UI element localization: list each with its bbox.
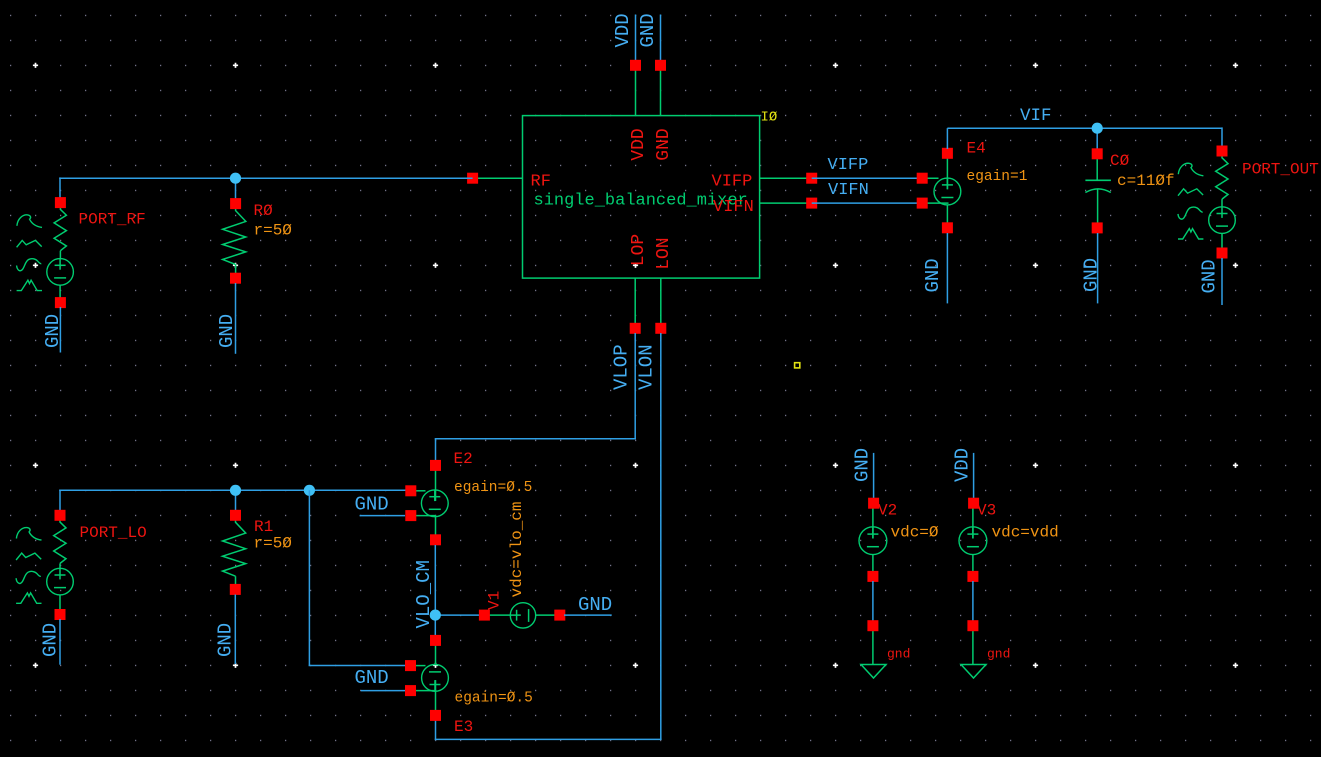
svg-text:vdc=vdd: vdc=vdd [992,524,1059,542]
vdc V1 circle [510,603,535,628]
svg-text:E2: E2 [454,450,473,468]
svg-text:GND: GND [42,314,64,348]
vcvs E4 circle [934,178,961,205]
R0 pin top [230,198,241,209]
V1 pin plus [479,610,490,621]
wire LO net horizontal [59,489,408,491]
vdc V2 circle [859,527,887,555]
R1 pin top [230,510,241,521]
C0 pin top [1092,148,1103,159]
V3 pin plus [968,498,979,509]
mixer pin VDD [630,60,641,71]
PORT_OUT resistor zigzag [1216,156,1228,200]
wire R0 gnd stub [235,283,237,354]
vdc V3 leads [972,503,974,538]
ground symbol (V2) [872,629,874,665]
V3 pin minus [967,571,978,582]
svg-text:c=11Øf: c=11Øf [1117,172,1175,190]
capacitor C0 top plate [1085,179,1111,181]
wire LO to R1 [235,490,237,511]
wire E3 gnd stub [361,690,405,692]
wire VLO_CM to V1 [435,614,480,616]
op-amp U-mixer I0 symbol box [523,116,760,279]
svg-text:GND: GND [637,13,659,47]
mixer RF lead [473,177,523,179]
wire RF net horizontal [59,177,472,179]
svg-text:gnd: gnd [887,647,910,662]
wire RF to PORT_RF [59,177,61,198]
wire C0 gnd stub [1097,233,1099,303]
vcvs E3 circle [422,665,449,692]
svg-text:gnd: gnd [987,647,1010,662]
mixer pin LOP [630,323,641,334]
PORT_RF pin top [55,197,66,208]
svg-text:GND: GND [654,128,674,160]
PORT_RF resistor zigzag [54,207,66,251]
gnd pin (V3) [967,620,978,631]
svg-text:GND: GND [216,314,238,348]
svg-text:RF: RF [531,173,551,192]
svg-text:GND: GND [355,494,389,516]
vcvs E3 control leads [411,665,426,667]
C0 pin bottom [1092,222,1103,233]
wire RF to R0 [235,178,237,199]
svg-text:E4: E4 [967,140,986,158]
svg-text:GND: GND [852,448,874,482]
svg-text:V2: V2 [878,502,897,520]
svg-text:VLON: VLON [636,344,658,390]
V1 pin minus [554,610,565,621]
vcvs E2 output leads [435,465,437,501]
vdc V3 circle [959,527,987,555]
PORT_LO pin bottom [55,609,66,620]
E2 pin ctrl+ [405,485,416,496]
mixer pin VIFN [806,198,817,209]
port source PORT_RF waveform glyphs [17,215,42,291]
mixer VIFP lead [760,177,812,179]
svg-text:VIFP: VIFP [712,173,753,192]
svg-text:PORT_OUT: PORT_OUT [1242,161,1319,179]
E2 pin out- [430,534,441,545]
PORT_RF pin bottom [55,297,66,308]
vcvs E4 output leads [946,153,948,189]
mixer LON lead [660,278,662,324]
svg-text:PORT_RF: PORT_RF [79,211,146,229]
svg-text:VDD: VDD [612,13,634,47]
svg-text:VIFP: VIFP [828,156,869,175]
E2 pin out+ [430,460,441,471]
wire V1 gnd stub [564,614,612,616]
svg-text:IØ: IØ [761,109,778,125]
svg-text:egain=Ø.5: egain=Ø.5 [454,480,532,496]
E3 pin out- [430,635,441,646]
E4 pin ctrl+ [917,173,928,184]
svg-text:r=5Ø: r=5Ø [254,222,293,240]
svg-text:RØ: RØ [254,202,274,220]
svg-text:VDD: VDD [952,448,974,482]
port source PORT_OUT waveform glyphs [1178,163,1203,239]
svg-text:VDD: VDD [629,128,649,160]
E3 pin ctrl- [405,685,416,696]
vdc V1 leads [484,614,520,616]
V2 pin minus [867,571,878,582]
svg-text:E3: E3 [454,718,473,736]
wire VIF to C0 [1096,128,1098,149]
svg-text:GND: GND [1081,258,1103,292]
svg-text:GND: GND [578,594,612,616]
svg-text:GND: GND [355,667,389,689]
mixer pin VIFP [806,173,817,184]
wire LO branch down to E3 [308,490,310,665]
capacitor C0 bottom lead [1097,189,1099,223]
capacitor C0 bottom plate (arc) [1085,189,1110,193]
E4 pin out+ [942,148,953,159]
node LO junction 2 [304,485,315,496]
vdc V2 leads [872,503,874,538]
resistor R1 body [223,515,246,576]
E4 pin out- [942,222,953,233]
PORT_OUT source circle [1209,207,1236,234]
V2 pin plus [868,498,879,509]
port source PORT_LO waveform glyphs [16,528,41,604]
svg-text:egain=1: egain=1 [967,169,1028,185]
wire VDD stub [635,15,637,62]
wire E4 gnd stub [946,233,948,303]
wire VIF vertical from E4 [946,128,948,149]
vcvs E4 control leads [922,177,938,179]
E3 pin out+ [430,710,441,721]
svg-text:GND: GND [1199,259,1221,293]
wire VLON net [660,333,662,739]
wire VIF horizontal [947,127,1222,129]
svg-text:VIFN: VIFN [713,198,754,217]
svg-text:r=5Ø: r=5Ø [254,535,293,553]
node VIF junction [1092,123,1103,134]
svg-text:vdc=Ø: vdc=Ø [891,524,939,542]
E3 pin ctrl+ [405,660,416,671]
svg-text:R1: R1 [254,518,273,536]
mixer GND lead [660,69,662,116]
wire V2 top stub [873,453,875,499]
node VLO_CM junction [430,610,441,621]
svg-text:GND: GND [215,623,237,657]
wire PORT_RF gnd stub [59,307,61,353]
gnd pin (V2) [867,620,878,631]
svg-text:PORT_LO: PORT_LO [80,524,147,542]
sheet origin marker [795,363,800,368]
svg-text:GND: GND [40,623,62,657]
E4 pin ctrl- [917,198,928,209]
svg-text:LOP: LOP [629,234,649,266]
node RF junction [230,173,241,184]
vcvs E2 control leads [411,490,426,492]
PORT_RF source circle [47,259,74,286]
wire LO to PORT_LO [59,490,61,512]
mixer VDD lead [635,69,637,116]
mixer pin GND [655,60,666,71]
wire R1 gnd stub [234,595,236,665]
svg-text:GND: GND [922,258,944,292]
svg-text:V3: V3 [977,502,996,520]
PORT_OUT pin top [1217,146,1228,157]
ground symbol (V3) [972,629,974,665]
PORT_OUT pin bottom [1217,248,1228,259]
wire VLOP net [634,333,636,439]
PORT_LO source circle [47,568,74,595]
wire VIF to PORT_OUT [1221,127,1223,146]
svg-text:VIFN: VIFN [828,181,869,200]
mixer pin LON [655,323,666,334]
mixer VIFN lead [760,202,812,204]
wire V3 to gnd [972,581,974,621]
mixer pin RF [467,173,478,184]
svg-text:VLOP: VLOP [611,344,633,390]
E2 pin ctrl- [405,510,416,521]
vcvs E2 circle [421,490,448,517]
svg-text:vdc=vlo_cm: vdc=vlo_cm [508,501,526,597]
wire PORT_OUT gnd stub [1221,258,1223,305]
svg-text:LON: LON [654,237,674,269]
resistor R0 body [223,204,246,265]
svg-text:CØ: CØ [1110,152,1130,170]
wire V2 to gnd [872,581,874,621]
PORT_LO pin top [55,510,66,521]
wire VIFP net [812,177,923,179]
svg-text:V1: V1 [486,591,504,610]
wire VLO_CM vertical [434,545,436,636]
wire GND stub [660,15,662,62]
wire E2 gnd stub [360,515,405,517]
mixer LOP lead [634,278,636,324]
wire PORT_LO gnd stub [59,619,61,665]
PORT_LO resistor zigzag [54,520,66,564]
wire V3 top stub [973,453,975,499]
grid origin markers [33,63,38,68]
capacitor C0 top lead [1096,158,1098,180]
wire VIFN net [812,202,923,204]
svg-text:VIF: VIF [1020,106,1052,126]
R0 pin bottom [230,273,241,284]
vcvs E3 output leads [435,640,437,664]
R1 pin bottom [230,584,241,595]
node LO junction 1 [230,485,241,496]
svg-text:egain=Ø.5: egain=Ø.5 [455,691,533,707]
